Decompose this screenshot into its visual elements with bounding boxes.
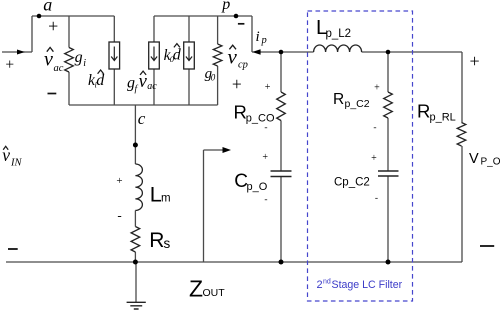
wire g_f source leads	[153, 16, 155, 105]
wire input left	[2, 16, 32, 52]
svg-text:+: +	[371, 153, 377, 164]
svg-text:v: v	[44, 49, 53, 71]
svg-text:V: V	[469, 151, 479, 167]
node dot ground	[133, 260, 138, 265]
svg-text:ac: ac	[147, 81, 157, 92]
capacitor C_p_O	[271, 171, 292, 177]
svg-text:p_O: p_O	[247, 181, 268, 193]
current source box k_0 d	[184, 42, 195, 69]
svg-text:a: a	[43, 0, 52, 14]
wire ground stem	[135, 262, 137, 302]
resistor g_i	[65, 48, 74, 73]
svg-text:L: L	[150, 182, 162, 206]
resistor R_p_C2	[384, 92, 393, 118]
resistor g_0	[213, 44, 222, 66]
svg-text:p: p	[261, 35, 267, 46]
wire C_O branch	[280, 52, 282, 262]
svg-text:R: R	[149, 229, 164, 252]
svg-text:i: i	[83, 58, 86, 69]
Z_OUT arrowhead	[223, 147, 232, 153]
node dot CO bottom	[279, 260, 284, 265]
svg-text:+: +	[116, 175, 122, 187]
svg-text:d: d	[173, 46, 182, 63]
node dot on c branch	[133, 143, 138, 148]
svg-text:Cp_C2: Cp_C2	[334, 177, 370, 189]
svg-text:+: +	[232, 74, 242, 94]
svg-text:+: +	[5, 57, 14, 74]
resistor R_p_RL	[457, 123, 466, 147]
node dot C2 bottom	[386, 260, 391, 265]
svg-text:d: d	[96, 72, 105, 89]
minus v_ac	[48, 93, 57, 95]
svg-text:R: R	[333, 91, 344, 108]
minus output	[480, 245, 494, 247]
wire Z_OUT probe	[204, 150, 225, 262]
svg-text:2: 2	[317, 279, 323, 291]
svg-text:m: m	[161, 192, 171, 204]
svg-text:0: 0	[211, 72, 216, 82]
svg-text:s: s	[164, 236, 171, 251]
capacitor Cp_C2	[378, 171, 399, 176]
wire bottom rail	[6, 261, 462, 263]
dashed 2nd-stage filter box	[308, 11, 413, 301]
svg-text:-: -	[375, 194, 378, 204]
svg-text:+: +	[262, 152, 268, 163]
wire main output rail	[252, 51, 462, 53]
svg-text:IN: IN	[10, 158, 22, 169]
svg-text:-: -	[373, 123, 376, 133]
svg-text:cp: cp	[238, 60, 248, 71]
wire node c branch	[134, 105, 136, 262]
i_p arrowhead	[252, 49, 260, 55]
svg-text:Z: Z	[189, 275, 203, 301]
node dot C2 top	[386, 50, 391, 55]
minus at p	[238, 23, 245, 25]
inductor L_m	[135, 164, 142, 210]
svg-text:Stage LC Filter: Stage LC Filter	[332, 279, 403, 291]
ground	[127, 302, 146, 309]
svg-text:p: p	[221, 0, 230, 13]
svg-text:+: +	[265, 82, 271, 93]
arrow inside k_i source	[111, 47, 117, 61]
svg-text:g: g	[75, 49, 83, 66]
svg-text:-: -	[117, 208, 121, 223]
arrow inside k_0 source	[186, 47, 192, 61]
svg-text:+: +	[48, 16, 58, 36]
svg-text:nd: nd	[323, 278, 331, 285]
svg-text:c: c	[138, 109, 146, 128]
svg-text:-: -	[264, 195, 267, 205]
wire bottom of source network	[69, 104, 218, 106]
wire C2 branch	[387, 52, 389, 262]
svg-text:P_O: P_O	[481, 156, 500, 167]
current source box k_i d	[109, 42, 120, 69]
minus input	[8, 248, 18, 250]
inductor L_p_L2	[314, 45, 362, 52]
svg-text:OUT: OUT	[203, 287, 226, 299]
current source box g_f v_ac	[149, 42, 160, 69]
svg-text:p_C2: p_C2	[345, 98, 370, 110]
resistor R_p_CO	[277, 92, 286, 121]
svg-text:i: i	[256, 29, 260, 45]
svg-text:v: v	[139, 72, 148, 92]
svg-text:p_CO: p_CO	[246, 113, 275, 125]
wire top-right group	[154, 16, 252, 52]
svg-text:ac: ac	[54, 63, 64, 74]
node a dot	[37, 14, 42, 19]
node p dot	[234, 14, 239, 19]
svg-text:R: R	[417, 101, 430, 122]
svg-text:p_RL: p_RL	[430, 112, 456, 124]
svg-text:-: -	[264, 123, 267, 133]
svg-text:p_L2: p_L2	[326, 28, 352, 40]
svg-text:+: +	[470, 51, 480, 71]
wire k_0 source leads	[188, 16, 190, 105]
arrow inside g_f source	[151, 47, 157, 61]
wire g_i branch leads	[68, 16, 70, 105]
node dot CO top	[279, 50, 284, 55]
input arrowhead	[17, 50, 25, 55]
svg-text:+: +	[374, 83, 380, 94]
wire top-left	[32, 15, 114, 17]
resistor R_s	[131, 227, 140, 253]
wire g_0 branch leads	[217, 16, 219, 105]
wire k_i source leads	[113, 16, 115, 105]
wire right branch	[461, 52, 463, 262]
